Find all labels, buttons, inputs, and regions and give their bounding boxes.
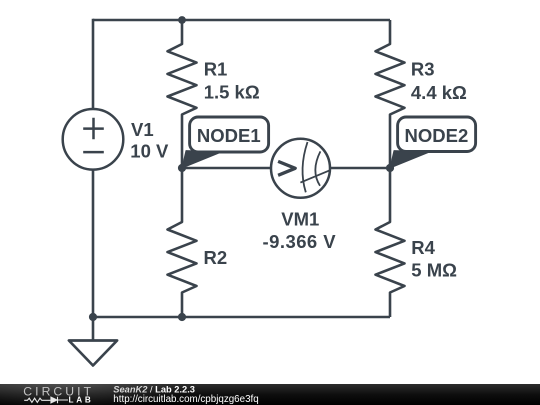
svg-text:http://circuitlab.com/cpbjqzg6: http://circuitlab.com/cpbjqzg6e3fq	[113, 394, 258, 405]
node NODE2 flag	[390, 117, 476, 168]
resistor R1	[168, 20, 197, 168]
node NODE1 junction dot	[178, 164, 186, 172]
voltage source V1	[63, 109, 124, 170]
VM1 value labels	[263, 208, 337, 252]
V1 value labels	[130, 119, 169, 162]
R3 value labels	[411, 59, 467, 103]
R4 value labels	[411, 237, 457, 280]
attribution line 2: url	[113, 394, 258, 405]
wire middle right (VM1 to NODE2)	[330, 167, 390, 170]
R1 value labels	[204, 59, 260, 103]
R2 value label	[204, 247, 228, 268]
CircuitLab logo wordmark CIRCUIT	[23, 385, 94, 399]
CircuitLab logo wordmark LAB	[69, 396, 94, 405]
node NODE2 junction dot	[386, 164, 394, 172]
resistor R3	[376, 20, 405, 168]
node A junction dot (top rail / R1)	[178, 16, 186, 24]
svg-text:LAB: LAB	[69, 396, 94, 405]
svg-text:-9.366 V: -9.366 V	[263, 231, 337, 252]
attribution line 1: SeanK2 / Lab 2.2.3	[113, 385, 195, 395]
wire ground lead	[92, 317, 95, 341]
svg-text:VM1: VM1	[281, 208, 319, 229]
svg-text:10 V: 10 V	[130, 140, 169, 161]
footer bar	[0, 359, 540, 405]
node NODE1 flag	[182, 117, 269, 168]
resistor R2	[168, 168, 197, 317]
svg-text:1.5 kΩ: 1.5 kΩ	[204, 81, 260, 102]
svg-text:NODE1: NODE1	[197, 125, 261, 146]
wire bottom-right segment	[182, 316, 390, 319]
svg-text:4.4 kΩ: 4.4 kΩ	[411, 82, 467, 103]
wire left lower (V1 minus terminal to bottom rail)	[92, 170, 95, 318]
resistor R4	[376, 168, 405, 317]
wire top-right segment	[182, 19, 390, 22]
wire bottom-left segment	[93, 316, 182, 319]
wire middle left (NODE1 to VM1)	[182, 167, 271, 170]
voltmeter VM1	[271, 139, 330, 198]
node bottom rail / R2 junction dot	[178, 313, 186, 321]
svg-text:NODE2: NODE2	[405, 125, 469, 146]
ground	[69, 341, 117, 366]
wire top-left segment	[93, 19, 182, 22]
svg-text:5 MΩ: 5 MΩ	[411, 259, 457, 280]
svg-text:R2: R2	[204, 247, 228, 268]
CircuitLab logo circuit squiggle (resistor + diode)	[24, 397, 68, 403]
wire left upper (top rail to V1 plus terminal)	[92, 19, 95, 110]
svg-text:R3: R3	[411, 59, 435, 80]
node ground junction dot	[89, 313, 97, 321]
svg-text:R4: R4	[411, 237, 435, 258]
svg-text:V1: V1	[131, 119, 154, 140]
svg-text:R1: R1	[204, 59, 228, 80]
